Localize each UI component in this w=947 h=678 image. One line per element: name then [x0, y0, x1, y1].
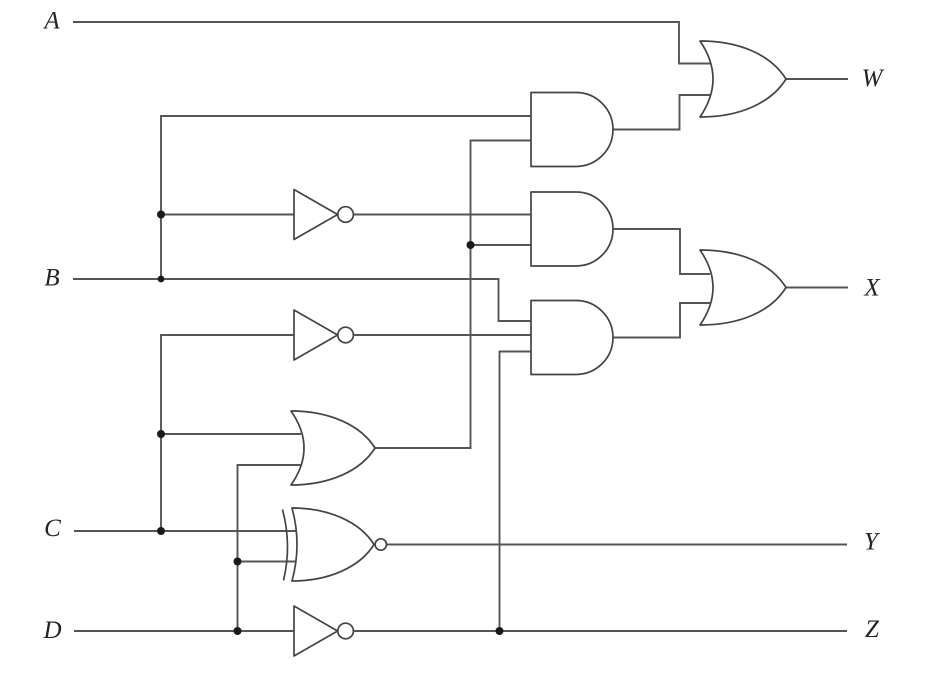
bubble of NOT1 [338, 207, 354, 223]
junction node C to OR3 [157, 430, 165, 438]
xor body of XNOR gate output Y [292, 508, 374, 581]
wire AND2 output to OR2 top input [613, 229, 710, 274]
wire input C to XNOR input1 [74, 530, 301, 532]
junction on input D line [234, 627, 242, 635]
svg-text:W: W [862, 65, 885, 92]
bubble of NOT3 [338, 623, 354, 639]
wire node to AND2 input2 [471, 244, 536, 246]
wire node C to OR3 input1 [161, 433, 301, 435]
svg-text:B: B [44, 265, 59, 292]
wire B branch top to AND1 input1 [161, 116, 535, 279]
or gate OR3 (C OR D) [291, 411, 375, 485]
bubble of XNOR [375, 539, 386, 550]
junction on input B line [158, 276, 165, 283]
junction on input C line [157, 527, 165, 535]
junction node (C OR D) to AND2 [467, 241, 475, 249]
wire NOT2 output to AND3 input2 [354, 334, 536, 336]
and gate AND2 (NOT B AND (C OR D)) [531, 192, 613, 266]
junction node B to NOT1 [157, 211, 165, 219]
wire node D to OR3 input2 [238, 465, 302, 631]
wire AND3 output to OR2 bottom input [613, 303, 710, 338]
wire node D to XNOR input2 [238, 561, 302, 563]
svg-text:Z: Z [865, 616, 880, 643]
wire OR2 output to X [786, 287, 848, 289]
wire OR3 output up to AND1 input2 [375, 141, 535, 449]
bubble of NOT2 [338, 327, 354, 343]
XNOR input side arc [283, 510, 288, 581]
and gate AND1 (B AND (C OR D)) [531, 93, 613, 167]
junction node D to XNOR [234, 558, 242, 566]
wire XNOR output to Y [387, 544, 848, 546]
and gate AND3 (B AND NOT C AND NOT D) [531, 301, 613, 375]
or gate OR2 output X [700, 250, 786, 325]
wire OR1 output to W [786, 78, 848, 80]
svg-text:A: A [42, 8, 60, 35]
svg-text:D: D [42, 617, 61, 644]
wire input A to OR1 top input [73, 22, 710, 64]
wire AND1 output to OR1 bottom input [613, 95, 710, 130]
svg-text:C: C [44, 515, 61, 542]
svg-text:X: X [863, 275, 881, 302]
wire NOT3 output to Z [354, 630, 848, 632]
inverter NOT2 triangle [294, 310, 338, 360]
wire Z branch to AND3 input3 [500, 352, 536, 632]
wire input B to AND3 input1 [73, 279, 535, 321]
wire NOT2 input from node C [161, 335, 297, 531]
junction on Z line [496, 627, 504, 635]
wire NOT1 input from node B [161, 214, 297, 216]
inverter NOT3 triangle [294, 606, 338, 656]
wire input D to NOT3 [74, 630, 297, 632]
wire NOT1 output to AND2 input1 [354, 214, 536, 216]
or gate OR1 output W [700, 41, 786, 117]
inverter NOT1 triangle [294, 190, 338, 240]
